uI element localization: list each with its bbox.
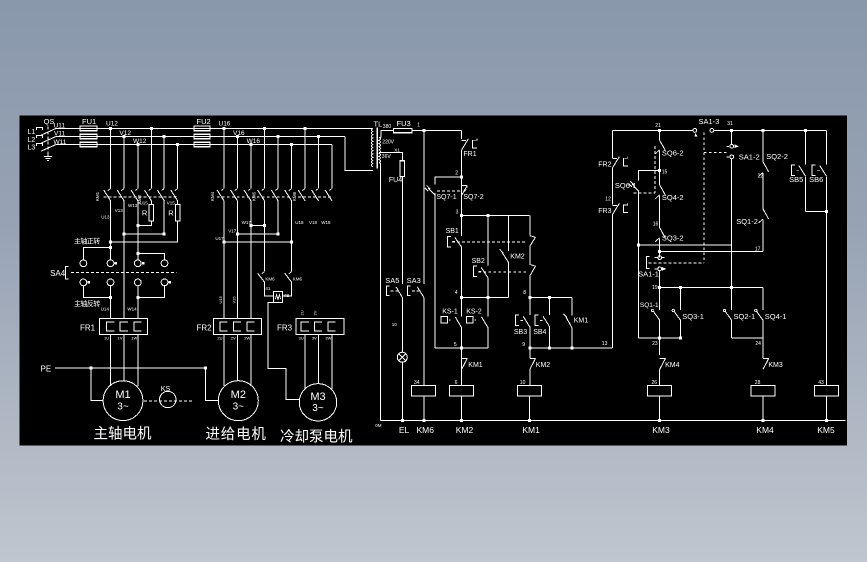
- wire KS-1 bottom: [461, 328, 463, 348]
- svg-text:4: 4: [455, 290, 458, 296]
- node junction V15 crossover: [163, 233, 166, 236]
- svg-text:15: 15: [662, 169, 668, 175]
- svg-text:KM4: KM4: [665, 362, 680, 369]
- wire SQ2-2 column top: [762, 130, 764, 161]
- switch SA4 row2 terminal 3: [134, 279, 141, 286]
- fuse FU2 element phase U: [194, 126, 210, 131]
- svg-text:3: 3: [456, 209, 459, 215]
- svg-text:U12: U12: [106, 121, 118, 128]
- wire SB3 bottom: [529, 327, 531, 348]
- fuse FU1 element phase W: [80, 142, 97, 147]
- wire W15 segment (KM2 column 3 into resistor): [177, 200, 179, 204]
- wire M2 column3 to FR2: [250, 200, 252, 318]
- switch SA4 row2 terminal 1: [80, 279, 87, 286]
- wire crossover V17: [237, 233, 278, 235]
- svg-text:SQ4-1: SQ4-1: [765, 312, 787, 321]
- node junction on phase bus at x=164.2: [163, 135, 166, 138]
- node junction W14: [136, 296, 139, 299]
- switch SA1-3 terminal left: [693, 129, 697, 133]
- contactor KM6 auxiliary contact left: [258, 273, 265, 282]
- svg-text:SA3: SA3: [407, 276, 421, 285]
- wire resistor R2 bottom link to U13: [111, 221, 178, 242]
- wire rail 4: [462, 296, 509, 298]
- wire rail3 corner down: [529, 216, 531, 236]
- wire node19 to SQ1-1 gap: [659, 287, 661, 310]
- switch QS blade L3: [41, 145, 56, 152]
- wire W13 segment: [137, 200, 139, 253]
- svg-text:SB1: SB1: [446, 228, 459, 235]
- node junction on phase bus at x=110.5: [109, 127, 112, 130]
- svg-text:FR2: FR2: [197, 324, 213, 333]
- thermal heater element: [247, 322, 255, 331]
- svg-text:9: 9: [522, 342, 525, 348]
- limit switch SQ1-1 contact: [653, 311, 660, 320]
- wire M1 column U12 drop: [110, 128, 112, 188]
- svg-text:KM1: KM1: [522, 425, 540, 435]
- switch SA1-3 blade pointer: [694, 133, 697, 136]
- svg-text:U17: U17: [215, 236, 224, 241]
- svg-text:SQ1-1: SQ1-1: [640, 302, 659, 309]
- node junction 0/EL: [401, 419, 404, 422]
- wire SQ4-1 bottom to KM3 NC: [762, 321, 764, 358]
- wire SB2 bottom: [487, 278, 489, 317]
- resistor R (phase U): [149, 205, 154, 221]
- limit switch SQ4-2 contact: [660, 185, 666, 195]
- svg-text:1W: 1W: [131, 336, 137, 341]
- svg-text:2W: 2W: [244, 336, 250, 341]
- svg-text:V18: V18: [309, 220, 318, 225]
- svg-text:PE: PE: [41, 364, 52, 373]
- wire SQ7-1 leg down: [434, 193, 436, 348]
- wire node 22 segment: [762, 173, 764, 209]
- svg-text:KM5: KM5: [252, 191, 257, 201]
- svg-text:KM3: KM3: [768, 362, 783, 369]
- wire 36V tap to FU4: [379, 153, 402, 161]
- svg-text:KM1: KM1: [95, 191, 100, 201]
- svg-text:KM4: KM4: [756, 425, 774, 435]
- node junction 0/KM5: [825, 419, 828, 422]
- svg-text:YB: YB: [283, 293, 289, 298]
- switch SA4 row2 terminal 2: [107, 279, 114, 286]
- node junction 9: [528, 346, 531, 349]
- fuse FU4: [400, 161, 404, 177]
- node junction 0/KM2: [460, 419, 463, 422]
- node junction on phase bus: [249, 143, 252, 146]
- switch SA4 row1 terminal 4: [161, 260, 168, 267]
- wire KM2 column 2 drop: [163, 137, 165, 189]
- svg-text:主轴电机: 主轴电机: [94, 425, 152, 442]
- wire KM2 column 3 drop: [177, 145, 179, 189]
- coil KM4: [751, 385, 775, 396]
- wire control bus 21 (left part): [613, 129, 693, 131]
- wire M2 column 2 drop: [236, 137, 238, 189]
- wire node 15 segment: [659, 151, 661, 186]
- wire SB5 bottom: [805, 177, 807, 212]
- svg-text:SB4: SB4: [533, 329, 546, 336]
- contactor KM1/KM2 linkage (dashed): [104, 196, 179, 198]
- pushbutton SB3 (NO): [529, 297, 531, 315]
- switch SA3 contact: [408, 286, 411, 295]
- speed relay contact KS-2: [467, 317, 473, 323]
- switch SA1-2 upper terminal: [726, 145, 729, 147]
- contactor KM2 NC interlock contact: [507, 216, 509, 251]
- wire bus to SQ6-2: [659, 130, 661, 140]
- limit switch SQ6-2 contact: [660, 140, 666, 150]
- svg-text:KM5: KM5: [817, 425, 835, 435]
- limit switch SQ4-1 contact: [762, 287, 764, 310]
- svg-text:19: 19: [652, 285, 658, 291]
- node junction 0/KM3: [658, 419, 661, 422]
- svg-text:KM6: KM6: [265, 276, 275, 281]
- svg-text:2U: 2U: [217, 336, 222, 341]
- thermal relay FR3 heater box: [296, 319, 344, 335]
- svg-text:SB5: SB5: [789, 175, 803, 184]
- svg-text:2: 2: [455, 171, 458, 177]
- wire SA5 to lamp EL: [401, 297, 403, 352]
- thermal heater element: [120, 322, 128, 331]
- thermal relay FR2 NC contact: [613, 158, 618, 160]
- svg-text:R: R: [168, 208, 174, 217]
- wire SQ3-2 to node 17 rail: [659, 238, 661, 257]
- svg-text:KS-1: KS-1: [442, 308, 458, 315]
- svg-text:13: 13: [602, 341, 608, 347]
- wire V15 link to V13: [124, 233, 164, 235]
- fuse FU1 element phase V: [80, 134, 97, 139]
- svg-text:X1: X1: [394, 147, 400, 152]
- svg-text:SQ7-2: SQ7-2: [463, 194, 483, 201]
- wire PE to M1 frame: [91, 368, 103, 401]
- svg-text:U18: U18: [295, 220, 304, 225]
- wire SB2 branch upper: [487, 216, 489, 266]
- svg-text:V13: V13: [115, 208, 124, 213]
- switch SA1-1 bracket: [647, 256, 650, 268]
- svg-text:SA5: SA5: [385, 276, 399, 285]
- svg-text:1U: 1U: [104, 336, 109, 341]
- node junction KS-2 top: [486, 296, 489, 299]
- wire phase bus V (middle): [56, 136, 345, 138]
- node junction W13/R1: [136, 224, 139, 227]
- wire FR3 down to rail 9: [612, 215, 614, 348]
- wire phase bus W (bottom): [56, 144, 332, 146]
- svg-text:SA4: SA4: [50, 269, 66, 278]
- svg-text:V15: V15: [232, 296, 237, 304]
- node junction 2: [460, 175, 463, 178]
- node junction on phase bus: [236, 135, 239, 138]
- node junction W13 branch: [136, 252, 139, 255]
- contactor KM4 NC interlock: [660, 357, 666, 359]
- fuse FU2 element phase W: [194, 142, 210, 147]
- wire W13 to SA4 terminal 3: [137, 254, 139, 260]
- node junction 15: [658, 169, 661, 172]
- limit switch SQ3-2 contact: [660, 228, 666, 238]
- wire 12 segment: [612, 168, 614, 205]
- wire KM5 column 2 drop: [277, 137, 279, 189]
- wire FU4 to SA5: [401, 177, 403, 285]
- svg-text:FR2: FR2: [598, 161, 611, 168]
- svg-text:SA1-1: SA1-1: [638, 269, 659, 278]
- wire branch to SA4 terminal 4: [138, 254, 165, 260]
- wire KM5 coil branch: [825, 211, 827, 385]
- svg-text:FU2: FU2: [197, 117, 211, 126]
- svg-text:SQ2-2: SQ2-2: [766, 152, 788, 161]
- pushbutton SB2 (NO): [474, 266, 478, 276]
- svg-text:41: 41: [265, 286, 271, 291]
- wire bus to SB5: [805, 130, 807, 164]
- fuse FU2 element phase V: [194, 134, 210, 139]
- wire KM1 contact bottom: [571, 328, 573, 348]
- node junction on phase bus: [222, 127, 225, 130]
- wire rail 19: [660, 286, 763, 288]
- wire U13 to SA4 terminal 2: [110, 248, 112, 260]
- svg-text:KM6: KM6: [417, 425, 435, 435]
- node junction on phase bus: [304, 127, 307, 130]
- svg-text:KM3: KM3: [652, 425, 670, 435]
- node junction SB4 top: [548, 296, 551, 299]
- node junction PE to M1: [90, 366, 93, 369]
- svg-text:U16: U16: [219, 121, 231, 128]
- svg-text:SQ7-1: SQ7-1: [436, 194, 456, 201]
- wire KM2 column 1 drop: [150, 128, 152, 188]
- wire SA1-1 to node 19: [659, 271, 661, 310]
- node junction on phase bus: [277, 135, 280, 138]
- wire KS-1 top: [461, 297, 463, 316]
- svg-text:M3: M3: [310, 391, 325, 403]
- thermal heater element: [220, 322, 228, 331]
- svg-text:M1: M1: [115, 389, 130, 401]
- wire U14 down to FR1: [110, 286, 112, 319]
- svg-text:进给电机: 进给电机: [206, 426, 267, 443]
- wire V-phase drop to transformer primary: [345, 137, 373, 171]
- svg-text:KM2: KM2: [510, 254, 525, 261]
- wire M2 column1 to FR2: [223, 200, 225, 318]
- wire M3 column 3 drop (corner from W bus): [331, 145, 333, 189]
- fuse FU1 element phase U: [80, 126, 97, 131]
- svg-text:U13: U13: [101, 215, 110, 220]
- wire lamp EL to 0 bus: [401, 362, 403, 421]
- wire KM4 coil to 0 bus: [762, 396, 764, 421]
- contactor KM6 main contacts (3): [298, 190, 305, 201]
- node junction PE to M2: [204, 366, 207, 369]
- wire V13 segment: [123, 200, 125, 318]
- wire SQ6-1 leg down to rail 14: [638, 191, 640, 245]
- switch SA1-1 linkage (dashed): [649, 262, 704, 264]
- motor M2 (feed): [218, 381, 258, 421]
- wire KM3 coil to 0 bus: [659, 396, 661, 421]
- wire SQ1-2 bottom to rail 17: [762, 220, 764, 252]
- wire V15 segment: [163, 200, 165, 234]
- switch SA1-2 lower terminal: [726, 156, 729, 158]
- lamp EL: [397, 352, 407, 362]
- wire rail 24: [732, 337, 763, 339]
- svg-text:主轴正转: 主轴正转: [74, 237, 100, 246]
- node junction at U13 branch: [109, 246, 112, 249]
- wire KM1 coil to 0 bus: [528, 396, 530, 421]
- wire 1 drop to FR1 contact: [461, 131, 463, 139]
- switch SA5 contact: [386, 286, 389, 295]
- resistor R (phase W): [175, 205, 180, 221]
- shaft coupling M1-KS (dashed): [144, 400, 193, 402]
- wire KM5 coil to 0 bus: [825, 396, 827, 421]
- svg-text:SB6: SB6: [809, 175, 823, 184]
- node junction rail9/SB4: [548, 346, 551, 349]
- switch SA1 linkage to SA1-2 (dashed): [704, 151, 727, 153]
- contactor KM4 linkage (dashed): [217, 196, 293, 198]
- transformer TL primary winding: [371, 128, 373, 166]
- switch SA4 linkage (dashed): [71, 272, 177, 274]
- svg-text:KS-2: KS-2: [466, 308, 482, 315]
- node junction V13 crossover: [123, 233, 126, 236]
- node junction 0/KM6: [422, 419, 425, 422]
- svg-text:24: 24: [755, 341, 761, 347]
- wire KM5 column 1 drop: [263, 128, 265, 188]
- wire resistor R1 bottom link to W13: [138, 221, 152, 226]
- svg-text:主轴反转: 主轴反转: [74, 299, 100, 308]
- wire M3 column 1 drop: [304, 128, 306, 188]
- node junction 0/KM1: [528, 419, 531, 422]
- svg-text:3U: 3U: [299, 336, 304, 341]
- switch QS blade L2: [41, 137, 56, 144]
- switch SA4 row1 terminal 1: [80, 260, 87, 267]
- wire bus corner to SB6: [825, 130, 827, 164]
- wire M1 column V12 drop: [123, 137, 125, 189]
- thermal relay FR3 NC contact: [613, 204, 618, 206]
- svg-text:34: 34: [414, 380, 420, 386]
- svg-text:1: 1: [417, 123, 420, 129]
- switch SA1-3 terminal right: [710, 129, 714, 133]
- svg-text:FU4: FU4: [389, 177, 402, 184]
- svg-text:KM6: KM6: [293, 276, 303, 281]
- wire SA1-2 down to rail 14: [731, 159, 733, 288]
- node junction 8: [528, 296, 531, 299]
- motor M1 (spindle): [103, 381, 143, 421]
- wire crossover W17: [251, 225, 265, 227]
- wire M1 column W12 drop: [137, 145, 139, 189]
- speed relay KS: [160, 391, 176, 407]
- svg-text:16: 16: [653, 221, 659, 227]
- wire U13 segment: [110, 200, 112, 247]
- thermal relay FR1 heater box: [100, 319, 148, 335]
- svg-text:FR1: FR1: [80, 324, 96, 333]
- coil KM5: [814, 385, 838, 396]
- wire KM5 column1 segment: [263, 200, 265, 271]
- node junction rail19/SQ3-1: [679, 286, 682, 289]
- svg-text:SQ6-2: SQ6-2: [662, 148, 684, 157]
- svg-text:KM2: KM2: [536, 362, 551, 369]
- svg-text:V17: V17: [228, 229, 237, 234]
- svg-text:SQ6-1: SQ6-1: [615, 181, 637, 190]
- svg-text:L2: L2: [28, 137, 36, 144]
- svg-text:M2: M2: [231, 389, 246, 401]
- svg-text:KM2: KM2: [456, 425, 474, 435]
- wire brake YB to M3 frame: [268, 302, 300, 399]
- speed relay contact KS-1: [441, 317, 447, 323]
- node junction 0/KM4: [762, 419, 765, 422]
- pushbutton SB1 (stop, NC): [447, 236, 451, 246]
- pushbutton SB2 paired NO contact: [530, 265, 536, 267]
- wire PE to M2 frame: [206, 368, 219, 401]
- wire SA4 row2 terminal1 to U14: [83, 286, 110, 298]
- thermal heater element: [107, 322, 115, 331]
- wire node 16 segment: [659, 196, 661, 228]
- node junction on phase bus: [290, 143, 293, 146]
- wire right control bus riser: [612, 130, 614, 157]
- thermal heater element: [315, 322, 323, 331]
- wire rail 23: [639, 337, 681, 339]
- wire rail14 left leg down: [638, 245, 640, 338]
- svg-text:3~: 3~: [312, 403, 324, 414]
- svg-text:FR3: FR3: [277, 324, 293, 333]
- svg-text:3~: 3~: [233, 402, 245, 413]
- node junction on phase bus at x=137.8: [136, 143, 139, 146]
- wire rail 14: [639, 244, 732, 246]
- switch SA1-1 upper terminal: [655, 257, 658, 259]
- svg-text:FR3: FR3: [598, 208, 611, 215]
- wire 3 rail: [462, 215, 530, 217]
- wire PE bus: [55, 367, 206, 369]
- node junction 5: [460, 346, 463, 349]
- node junction on phase bus at x=151.3: [150, 127, 153, 130]
- svg-text:V15: V15: [167, 200, 176, 205]
- switch SA1 linkage (dashed vertical): [703, 132, 705, 263]
- svg-text:W14: W14: [127, 306, 137, 311]
- wire M2 column 1 drop: [223, 128, 225, 188]
- wire phase bus U (top): [56, 127, 372, 129]
- switch SA1-1 lower terminal: [655, 268, 658, 270]
- contactor KM6 linkage (dashed): [298, 196, 333, 198]
- SB2 linkage (dashed): [478, 271, 526, 273]
- switch QS linkage (dashed): [47, 127, 49, 155]
- svg-text:SQ4-2: SQ4-2: [662, 193, 684, 202]
- svg-text:W13: W13: [128, 203, 138, 208]
- node junction 17 left: [658, 250, 661, 253]
- svg-text:W12: W12: [133, 138, 147, 145]
- node junction 23: [658, 336, 661, 339]
- node junction bus/SA1-2: [730, 129, 733, 132]
- node junction on phase bus: [263, 127, 266, 130]
- wire to node 8: [529, 276, 531, 298]
- coil KM2: [461, 369, 463, 385]
- svg-text:W18: W18: [321, 220, 331, 225]
- wire W14 down to FR1: [137, 286, 139, 319]
- wire SA1-2 column: [731, 130, 733, 144]
- contactor KM1 NO auxiliary contact: [462, 357, 468, 359]
- contactor KM2 NC interlock (on KM1 coil leg): [529, 348, 531, 359]
- pushbutton SB1 paired NO contact: [530, 236, 536, 238]
- coil KM6 wire to bus: [423, 396, 425, 421]
- node junction on phase bus at x=124.0: [123, 135, 126, 138]
- svg-text:KM1: KM1: [574, 317, 589, 324]
- limit switch SQ7-2 contact (on wire 2): [462, 185, 467, 187]
- limit switch SQ3-1 contact: [680, 287, 682, 310]
- switch SA4 row1 terminal 3: [134, 260, 141, 267]
- svg-text:TL: TL: [374, 120, 383, 129]
- limit switch SQ6-1 contact: [632, 184, 639, 191]
- svg-text:U15: U15: [218, 295, 223, 303]
- wire branch to SA4 terminal 1: [83, 248, 110, 260]
- pushbutton SB5 (NO): [791, 165, 795, 175]
- node junction bus/SQ6-2: [658, 129, 661, 132]
- contactor KM6 auxiliary contact right: [285, 273, 292, 282]
- wire KS-2 bottom: [487, 328, 489, 348]
- wire KM1 aux top: [461, 348, 463, 370]
- node junction rail9/KM1: [570, 346, 573, 349]
- wire FR2 to motor M2 (3): [223, 335, 225, 386]
- wire SA3 to KM6 coil (lower): [423, 297, 425, 385]
- wire rail 5: [435, 347, 488, 349]
- limit switch SQ1-2 contact: [763, 209, 769, 219]
- svg-text:36V: 36V: [382, 154, 392, 160]
- svg-text:SA1-2: SA1-2: [739, 153, 760, 162]
